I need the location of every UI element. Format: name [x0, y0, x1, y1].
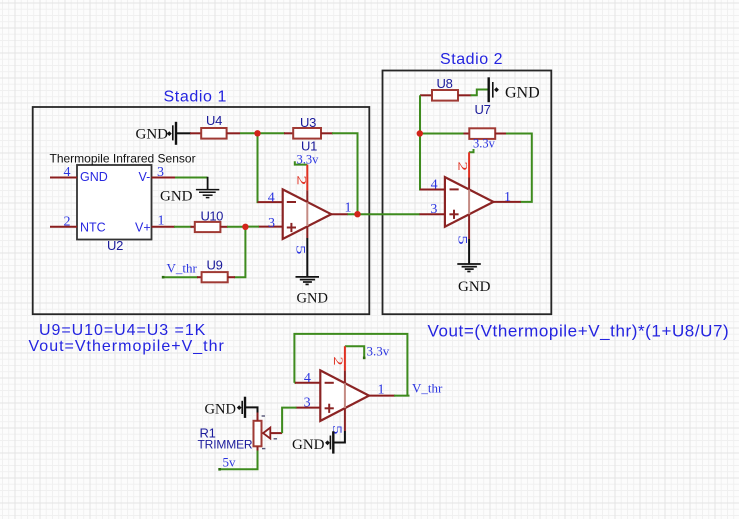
bottom op-amp plus sign — [325, 404, 334, 413]
junction node B — [242, 224, 248, 230]
wire 3.3v tick to U7 pin 2 — [469, 149, 474, 152]
svg-text:U4: U4 — [206, 113, 222, 128]
U7 plus sign — [449, 210, 458, 219]
svg-text:GND: GND — [160, 189, 193, 205]
svg-text:3: 3 — [157, 165, 164, 180]
wire node B down to U9 — [234, 227, 245, 277]
U1 pin 3 stub — [258, 226, 283, 228]
svg-text:U8: U8 — [437, 76, 453, 91]
resistor U9 — [197, 272, 235, 282]
svg-text:2: 2 — [64, 215, 71, 230]
U7 output stub — [493, 201, 520, 203]
svg-text:Stadio 2: Stadio 2 — [440, 51, 503, 68]
bottom op-amp minus sign — [325, 382, 334, 384]
frame Stadio 2 — [383, 71, 552, 315]
wire 3.3v tick to pin 2 — [295, 161, 308, 164]
svg-text:U9=U10=U4=U3 =1K: U9=U10=U4=U3 =1K — [39, 322, 206, 339]
op-amp U7 — [445, 177, 494, 227]
trimmer R1 body — [254, 413, 262, 451]
svg-text:GND: GND — [205, 402, 236, 418]
feedback wire loop bottom op-amp — [294, 334, 407, 396]
wire wiper to pin 3 — [282, 408, 296, 434]
svg-text:5: 5 — [293, 245, 307, 254]
wire U8 to GND symbol — [471, 90, 488, 96]
svg-text:TRIMMER: TRIMMER — [198, 438, 253, 452]
U2 pin 4 wire — [50, 177, 77, 179]
svg-text:4: 4 — [268, 190, 275, 205]
U1 output stub — [331, 213, 348, 215]
power GND symbol top of Stadio 1 — [167, 122, 176, 145]
power GND symbol top of Stadio 2 — [489, 77, 499, 102]
tick 5v wire end — [218, 468, 221, 471]
svg-text:GND: GND — [297, 290, 328, 306]
svg-text:1: 1 — [378, 383, 385, 398]
svg-text:2: 2 — [331, 356, 345, 365]
svg-text:Thermopile Infrared Sensor: Thermopile Infrared Sensor — [50, 152, 196, 166]
U1 pin 5 wire — [306, 238, 308, 276]
svg-text:4: 4 — [431, 177, 438, 192]
U2 pin 1 wire — [152, 226, 176, 228]
bottom op-amp output stub — [369, 395, 395, 397]
wire trimmer bottom to 5v — [220, 451, 258, 470]
svg-text:GND: GND — [292, 437, 325, 453]
earth ground at V- — [196, 190, 219, 198]
svg-text:4: 4 — [304, 371, 311, 386]
svg-text:1: 1 — [158, 214, 165, 229]
junction output node U1 — [354, 211, 360, 217]
U7 pin 5 wire — [468, 239, 470, 263]
svg-text:V-: V- — [139, 170, 151, 184]
svg-text:3: 3 — [430, 202, 437, 217]
wire node B to U1 pin 3 — [245, 226, 259, 228]
wire U7 resistor to feedback vertical — [506, 134, 532, 202]
component U2 thermopile sensor body — [77, 165, 152, 240]
svg-text:1: 1 — [504, 190, 511, 205]
frame Stadio 1 — [33, 107, 370, 314]
svg-text:GND: GND — [458, 279, 491, 295]
svg-text:U10: U10 — [201, 209, 224, 224]
svg-text:Vout=Vthermopile+V_thr: Vout=Vthermopile+V_thr — [29, 338, 225, 355]
power GND symbol at pin 5 — [325, 431, 333, 453]
wire U4 to node A — [240, 132, 258, 134]
earth ground below U1 — [296, 277, 320, 285]
wire node A to U3 — [258, 132, 286, 134]
U7 pin 2 wire — [468, 152, 470, 239]
U2 pin 3 wire — [152, 177, 177, 179]
svg-text:2: 2 — [455, 161, 470, 171]
resistor U8 — [420, 90, 471, 101]
svg-text:U1: U1 — [301, 139, 317, 154]
junction node A — [254, 130, 260, 136]
svg-text:U9: U9 — [207, 258, 223, 273]
wire pin2 to 3.3v tick — [345, 346, 364, 357]
svg-text:3.3v: 3.3v — [473, 137, 496, 151]
svg-text:U2: U2 — [107, 238, 123, 253]
resistor U7 — [464, 128, 508, 139]
trimmer wiper arrow — [263, 428, 282, 439]
bottom op-amp pin 5 wire — [335, 431, 345, 443]
svg-text:Vout=(Vthermopile+V_thr)*(1+U8: Vout=(Vthermopile+V_thr)*(1+U8/U7) — [428, 322, 730, 341]
op-amp bottom (V_thr buffer) — [320, 370, 369, 421]
wire U1 output to U7 pin 3 — [348, 213, 421, 215]
bottom op-amp pin 4 stub — [295, 382, 320, 384]
svg-text:5: 5 — [330, 425, 344, 434]
U7 pin 3 stub — [420, 213, 445, 215]
svg-text:3: 3 — [304, 396, 311, 411]
wire to pin 4 bottom op-amp — [294, 382, 296, 384]
wire GND to U4 — [177, 132, 191, 134]
svg-text:Stadio 1: Stadio 1 — [164, 89, 228, 106]
wire node C to U7 resistor — [420, 133, 465, 135]
bottom op-amp pin 2 wire — [344, 346, 346, 431]
svg-text:5v: 5v — [223, 455, 237, 470]
svg-text:3: 3 — [268, 216, 275, 231]
op-amp U1 — [283, 189, 332, 239]
power GND symbol at trimmer top — [237, 397, 245, 418]
U2 pin 2 wire — [50, 226, 77, 228]
wire output to V_thr label — [394, 395, 410, 397]
bottom op-amp pin 3 stub — [296, 407, 321, 409]
wire U10 to node B — [227, 226, 245, 228]
U1 plus sign — [287, 223, 296, 232]
U1 pin 2 wire — [306, 165, 308, 238]
wire U8 to node C — [419, 95, 421, 133]
svg-text:V+: V+ — [135, 221, 151, 235]
svg-text:4: 4 — [64, 165, 71, 180]
svg-text:GND: GND — [136, 127, 169, 143]
svg-text:V_thr: V_thr — [412, 381, 443, 396]
wire GND to trimmer top — [246, 407, 258, 413]
wire node A down to pin 4 — [258, 133, 259, 202]
resistor U4 — [190, 128, 240, 139]
wire V_thr to U9 — [163, 276, 198, 278]
wire down to earth at V- — [207, 177, 209, 190]
svg-text:V_thr: V_thr — [167, 261, 198, 276]
U7 minus sign — [450, 188, 459, 190]
trimmer pin ticks — [262, 415, 277, 449]
tick V_thr wire end — [162, 276, 165, 279]
svg-text:NTC: NTC — [80, 221, 106, 235]
wire U3 to output node (feedback) — [332, 133, 358, 214]
svg-text:GND: GND — [505, 85, 540, 102]
wire V- net to ground — [175, 177, 208, 179]
earth ground below U7 — [457, 264, 481, 272]
svg-text:GND: GND — [80, 170, 108, 184]
U1 pin 4 stub — [258, 201, 283, 203]
resistor U10 — [191, 222, 229, 232]
U7 pin 4 stub — [420, 189, 445, 191]
tick 3.3v wire end — [363, 357, 366, 360]
wire node C down to pin 4 — [420, 134, 421, 190]
resistor U3 — [284, 128, 333, 139]
wire U2 pin1 to U10 — [174, 226, 192, 228]
svg-text:5: 5 — [455, 235, 469, 244]
svg-text:U3: U3 — [300, 115, 316, 130]
U1 minus sign — [287, 201, 296, 203]
junction node C — [417, 130, 423, 136]
svg-text:U7: U7 — [475, 102, 491, 117]
svg-text:3.3v: 3.3v — [367, 344, 390, 359]
